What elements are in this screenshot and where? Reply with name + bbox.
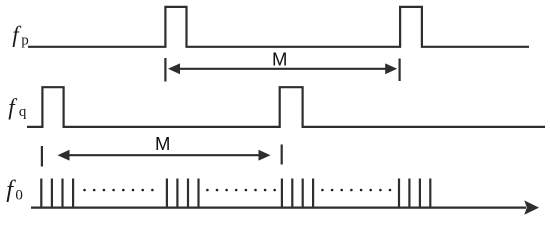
dimension arrow shaft M (row 1) [178, 68, 386, 70]
tick mark left (row 2, M span start) [41, 146, 43, 167]
dotted continuation run 2 (f_0) [206, 189, 209, 192]
dotted continuation run 1 (f_0) [83, 189, 86, 192]
svg-text:f: f [8, 95, 18, 120]
svg-text:M: M [155, 133, 170, 154]
signal f_p waveform [28, 7, 529, 47]
signal label f_q [8, 95, 27, 121]
time axis line f_0 [31, 207, 526, 209]
arrowhead right (row 2 M arrow) [259, 150, 271, 161]
signal f_q waveform [27, 87, 545, 127]
arrowhead left (row 2 M arrow) [58, 150, 70, 161]
pulse train group 1 (f_0) [40, 179, 42, 208]
signal label f_0 [6, 176, 23, 203]
dotted continuation run 3 (f_0) [321, 189, 324, 192]
arrowhead time axis f_0 [524, 200, 539, 214]
tick mark left (row 1, M span start) [164, 58, 166, 82]
svg-text:M: M [272, 49, 287, 70]
tick mark right (row 2, M span end) [281, 145, 283, 165]
arrowhead left (row 1 M arrow) [168, 63, 180, 74]
arrowhead right (row 1 M arrow) [385, 63, 397, 74]
svg-text:q: q [19, 104, 27, 120]
svg-text:0: 0 [15, 187, 23, 203]
pulse train group 3 (f_0) [281, 179, 283, 208]
dimension arrow shaft M (row 2) [68, 154, 260, 156]
svg-text:p: p [21, 33, 29, 49]
pulse train group 2 (f_0) [166, 179, 168, 208]
tick mark right (row 1, M span end) [399, 59, 401, 82]
pulse train group 4 (f_0) [398, 179, 400, 208]
signal label f_p [12, 22, 28, 49]
